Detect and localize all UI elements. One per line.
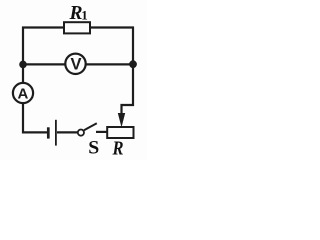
wire: battery to switch (57, 131, 78, 133)
voltmeter V (circle) (65, 54, 85, 74)
wire: voltmeter branch (23, 63, 133, 65)
battery: long thin plate (positive) (55, 120, 57, 146)
battery: short thick plate (negative) (47, 127, 50, 138)
resistor R1 (box) (64, 22, 90, 33)
rheostat R (box) (107, 127, 133, 138)
switch S: lever arm (84, 123, 97, 130)
switch S: pivot circle (78, 130, 84, 136)
wire: bottom from corner to battery (23, 131, 47, 133)
node: junction dot left (voltmeter tap) (19, 61, 27, 69)
label R1 (69, 3, 88, 24)
rheostat wiper arrowhead (118, 113, 125, 127)
svg-text:1: 1 (81, 8, 88, 23)
node: junction dot right (voltmeter tap) (129, 60, 137, 68)
wire: switch to rheostat (96, 131, 108, 133)
ammeter A (circle) (13, 83, 33, 103)
svg-text:R: R (112, 138, 124, 159)
svg-text:A: A (17, 85, 28, 102)
wire: jog from right wire to rheostat wiper (122, 105, 135, 117)
svg-text:V: V (70, 55, 81, 73)
svg-text:S: S (88, 137, 99, 158)
wire: outer loop (left, top, right sides) (22, 27, 134, 134)
